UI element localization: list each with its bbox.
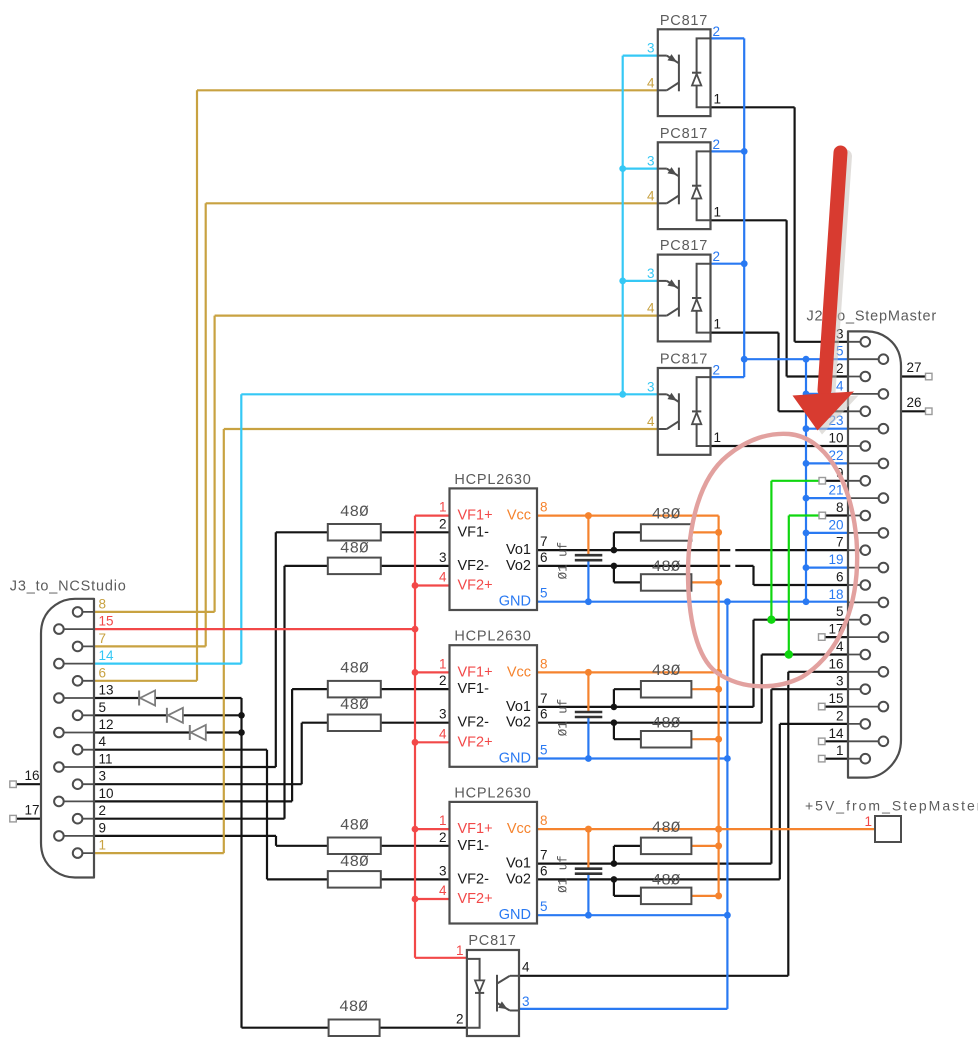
svg-text:VF1+: VF1+ [458,508,493,524]
svg-text:10: 10 [99,786,114,801]
svg-text:4: 4 [99,734,107,749]
svg-text:VF2-: VF2- [458,871,490,887]
svg-text:1: 1 [714,430,722,445]
svg-text:HCPL2630: HCPL2630 [454,785,531,801]
svg-text:Vo1: Vo1 [506,542,531,558]
svg-text:27: 27 [907,360,922,375]
svg-text:7: 7 [540,534,548,549]
svg-text:GND: GND [499,907,531,923]
svg-text:VF1-: VF1- [458,524,490,540]
svg-text:21: 21 [828,483,843,498]
svg-text:Vo2: Vo2 [506,715,531,731]
svg-text:5: 5 [836,604,844,619]
svg-text:Vo1: Vo1 [506,856,531,872]
svg-text:VF1-: VF1- [458,681,490,697]
svg-text:2: 2 [439,673,447,688]
svg-text:VF1+: VF1+ [458,664,493,680]
svg-text:48Ø: 48Ø [652,819,681,837]
svg-text:17: 17 [24,803,39,818]
svg-text:2: 2 [836,708,844,723]
svg-text:4: 4 [439,883,447,898]
svg-text:7: 7 [540,848,548,863]
svg-text:Ø1 uf: Ø1 uf [557,542,571,580]
svg-text:3: 3 [647,41,655,56]
svg-text:2: 2 [439,830,447,845]
svg-text:6: 6 [540,863,548,878]
svg-text:HCPL2630: HCPL2630 [454,472,531,488]
svg-text:48Ø: 48Ø [652,715,681,733]
svg-text:Vcc: Vcc [507,508,531,524]
svg-text:4: 4 [439,726,447,741]
svg-text:4: 4 [522,959,530,974]
svg-text:3: 3 [439,707,447,722]
svg-text:3: 3 [99,769,107,784]
svg-text:1: 1 [714,317,722,332]
svg-text:1: 1 [439,500,447,515]
svg-text:7: 7 [540,691,548,706]
svg-text:2: 2 [713,363,721,378]
svg-text:VF2+: VF2+ [458,891,493,907]
svg-text:VF2-: VF2- [458,715,490,731]
svg-text:2: 2 [99,803,107,818]
svg-text:8: 8 [540,813,548,828]
svg-text:4: 4 [836,378,844,393]
svg-text:1: 1 [456,943,464,958]
svg-text:1: 1 [439,656,447,671]
svg-text:3: 3 [836,674,844,689]
svg-text:5: 5 [540,743,548,758]
svg-text:4: 4 [647,188,655,203]
svg-text:26: 26 [907,395,922,410]
svg-text:16: 16 [828,656,843,671]
svg-text:HCPL2630: HCPL2630 [454,629,531,645]
svg-text:18: 18 [828,587,843,602]
svg-text:48Ø: 48Ø [652,871,681,889]
svg-text:15: 15 [828,691,843,706]
svg-text:48Ø: 48Ø [652,505,681,523]
svg-text:16: 16 [24,768,39,783]
svg-text:8: 8 [99,596,107,611]
svg-text:6: 6 [99,665,107,680]
svg-text:48Ø: 48Ø [652,662,681,680]
svg-text:5: 5 [540,899,548,914]
svg-text:2: 2 [713,24,721,39]
svg-text:15: 15 [99,614,114,629]
svg-text:3: 3 [647,379,655,394]
svg-text:12: 12 [99,717,114,732]
svg-text:6: 6 [540,550,548,565]
svg-text:48Ø: 48Ø [340,539,369,557]
svg-text:Vcc: Vcc [507,821,531,837]
svg-text:3: 3 [439,863,447,878]
svg-text:3: 3 [647,266,655,281]
svg-text:VF2+: VF2+ [458,734,493,750]
svg-text:2: 2 [713,137,721,152]
svg-text:VF2+: VF2+ [458,578,493,594]
svg-text:9: 9 [99,820,107,835]
svg-text:48Ø: 48Ø [652,558,681,576]
svg-text:VF1+: VF1+ [458,821,493,837]
svg-text:+5V_from_StepMaster: +5V_from_StepMaster [805,798,978,814]
svg-text:4: 4 [439,570,447,585]
svg-text:4: 4 [647,75,655,90]
svg-text:1: 1 [714,204,722,219]
svg-text:Vo1: Vo1 [506,699,531,715]
svg-text:Vo2: Vo2 [506,558,531,574]
svg-text:1: 1 [99,838,107,853]
svg-text:Ø1 uf: Ø1 uf [557,699,571,737]
svg-text:1: 1 [714,91,722,106]
svg-text:11: 11 [99,752,113,767]
svg-text:13: 13 [99,683,114,698]
svg-text:2: 2 [713,249,721,264]
svg-text:2: 2 [456,1012,464,1027]
svg-text:3: 3 [522,994,530,1009]
svg-text:PC817: PC817 [660,352,708,368]
svg-text:1: 1 [836,743,844,758]
svg-text:PC817: PC817 [468,933,516,949]
svg-text:3: 3 [439,550,447,565]
svg-text:VF1-: VF1- [458,838,490,854]
svg-text:20: 20 [828,517,843,532]
svg-text:Vcc: Vcc [507,664,531,680]
svg-text:14: 14 [99,648,115,663]
svg-text:48Ø: 48Ø [340,696,369,714]
svg-text:6: 6 [540,707,548,722]
svg-text:48Ø: 48Ø [340,660,369,678]
svg-text:6: 6 [836,570,844,585]
svg-text:7: 7 [99,631,107,646]
svg-text:GND: GND [499,594,531,610]
svg-text:1: 1 [864,814,872,829]
svg-text:5: 5 [540,586,548,601]
svg-text:J3_to_NCStudio: J3_to_NCStudio [10,579,127,595]
svg-text:PC817: PC817 [660,126,708,142]
svg-text:PC817: PC817 [660,238,708,254]
svg-text:5: 5 [99,700,107,715]
svg-text:8: 8 [540,656,548,671]
svg-text:7: 7 [836,535,844,550]
svg-text:48Ø: 48Ø [340,853,369,871]
svg-text:8: 8 [540,500,548,515]
svg-text:4: 4 [647,301,655,316]
svg-text:14: 14 [828,726,844,741]
svg-text:GND: GND [499,751,531,767]
svg-text:2: 2 [439,516,447,531]
svg-text:VF2-: VF2- [458,558,490,574]
svg-text:19: 19 [828,552,843,567]
svg-text:8: 8 [836,500,844,515]
svg-text:48Ø: 48Ø [339,998,368,1016]
svg-text:Ø1 uf: Ø1 uf [557,855,571,893]
svg-text:48Ø: 48Ø [340,503,369,521]
svg-text:PC817: PC817 [660,13,708,29]
svg-text:3: 3 [647,154,655,169]
svg-text:10: 10 [828,431,843,446]
svg-text:4: 4 [647,414,655,429]
svg-text:1: 1 [439,813,447,828]
svg-text:48Ø: 48Ø [340,816,369,834]
svg-text:Vo2: Vo2 [506,871,531,887]
